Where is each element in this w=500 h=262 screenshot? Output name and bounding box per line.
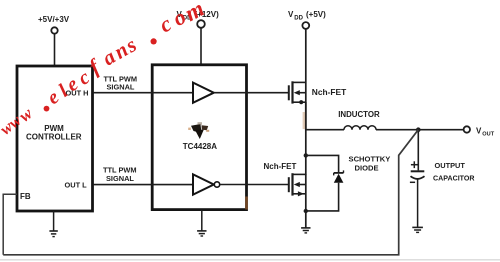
label TTL PWM SIGNAL (upper) xyxy=(104,74,138,91)
wire buffer output to Q1 gate xyxy=(214,92,289,94)
capacitor C1 output xyxy=(410,130,425,228)
buffer amplifier (non-inverting driver) xyxy=(193,83,214,103)
wire diode anode to ground rail xyxy=(306,183,339,211)
power terminal +5V/+3V xyxy=(38,15,70,34)
svg-text:V: V xyxy=(476,127,482,136)
MOSFET driver U2 box TC4428A xyxy=(152,65,246,210)
svg-text:SIGNAL: SIGNAL xyxy=(107,83,135,92)
wire inverter output to Q2 gate xyxy=(220,184,289,186)
transistor Q1 Nch-FET (high side) xyxy=(289,81,306,104)
transistor Q2 Nch-FET (low side / sync rectifier) xyxy=(289,173,306,196)
scan artifact line bottom xyxy=(0,259,500,261)
wire Q2 drain to ground leg xyxy=(305,174,307,228)
wire VDD12 supply to driver box xyxy=(200,28,202,65)
node output junction xyxy=(416,127,421,132)
diode D1 Schottky xyxy=(334,170,344,182)
svg-text:+5V/+3V: +5V/+3V xyxy=(38,15,70,24)
ground driver U2 xyxy=(197,210,206,236)
wire switch node vertical xyxy=(305,102,307,175)
svg-text:FB: FB xyxy=(20,192,31,201)
svg-text:SIGNAL: SIGNAL xyxy=(106,174,134,183)
node Q2 source-diode junction xyxy=(304,209,308,213)
wire +5V/+3V supply to PWM controller xyxy=(54,34,56,66)
svg-text:Nch-FET: Nch-FET xyxy=(264,162,297,171)
ground PWM controller xyxy=(49,211,57,237)
power terminal VDD (+5V) xyxy=(288,10,326,29)
svg-text:SCHOTTKY: SCHOTTKY xyxy=(349,154,391,163)
svg-text:OUT L: OUT L xyxy=(65,180,88,189)
label PWM CONTROLLER xyxy=(26,124,82,142)
svg-text:INDUCTOR: INDUCTOR xyxy=(338,110,380,119)
svg-text:TC4428A: TC4428A xyxy=(183,142,217,151)
artifact orange streak driver box edge xyxy=(245,197,248,210)
svg-text:OUT: OUT xyxy=(482,132,494,138)
power terminal VDD (+12V) xyxy=(177,10,220,28)
wire VDD5 supply to Q1 drain node xyxy=(305,29,307,130)
svg-text:V: V xyxy=(288,10,294,19)
label OUTPUT CAPACITOR xyxy=(433,161,475,183)
svg-text:(+5V): (+5V) xyxy=(306,10,326,19)
ground Q2 source xyxy=(301,228,310,233)
wire OUT L to inverter input xyxy=(93,184,193,186)
ground C1 xyxy=(412,227,423,232)
svg-text:OUTPUT: OUTPUT xyxy=(435,161,466,170)
node switch-diode junction xyxy=(304,153,308,157)
svg-text:PWM: PWM xyxy=(44,124,64,133)
svg-text:CAPACITOR: CAPACITOR xyxy=(433,175,475,183)
wire diode branch top xyxy=(306,155,339,173)
wire OUT H to driver input xyxy=(93,92,193,94)
svg-text:CONTROLLER: CONTROLLER xyxy=(26,133,82,142)
svg-text:DD: DD xyxy=(294,16,303,22)
artifact orange smear switch node xyxy=(303,112,306,129)
label SCHOTTKY DIODE xyxy=(349,154,391,172)
PWM controller U1 box xyxy=(17,66,93,211)
inductor L1 xyxy=(306,126,464,130)
svg-text:Nch-FET: Nch-FET xyxy=(312,87,347,97)
inverter driver xyxy=(193,174,220,194)
output terminal VOUT xyxy=(464,126,495,137)
wire feedback from output node to FB pin xyxy=(3,130,418,255)
Microchip logo xyxy=(188,122,209,139)
watermark period xyxy=(44,106,50,112)
svg-text:DIODE: DIODE xyxy=(355,163,379,172)
label TTL PWM SIGNAL (lower) xyxy=(103,166,137,183)
watermark period xyxy=(151,38,157,44)
